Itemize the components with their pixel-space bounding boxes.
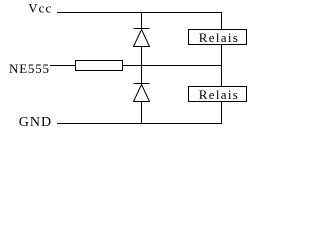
svg-text:GND: GND [19, 115, 52, 130]
svg-text:Vcc: Vcc [28, 1, 52, 16]
svg-text:Relais: Relais [199, 87, 239, 102]
svg-text:NE555: NE555 [9, 61, 50, 76]
svg-text:Relais: Relais [199, 30, 239, 45]
